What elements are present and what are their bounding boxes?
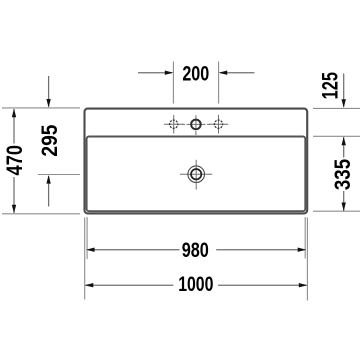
- drain outlet: [180, 160, 212, 190]
- washbasin outer rim (top view): [85, 109, 308, 214]
- svg-text:980: 980: [182, 239, 209, 262]
- svg-text:125: 125: [317, 72, 342, 99]
- dimension 1000 (overall width, bottom): [85, 218, 308, 301]
- tap hole right (optional, dashed): [209, 115, 228, 134]
- dimension 125 (rear ledge depth, right): [313, 72, 360, 136]
- svg-text:200: 200: [182, 62, 209, 85]
- dimension 980 (inner width, bottom): [86, 217, 306, 262]
- tap hole left (optional, dashed): [164, 115, 183, 134]
- svg-text:470: 470: [2, 145, 27, 176]
- dimension 200 (tap hole spacing, top): [138, 62, 254, 104]
- washbasin inner bowl: [87, 137, 306, 212]
- dimension 295 (drain centre from rear, left): [37, 76, 80, 207]
- svg-text:335: 335: [330, 159, 355, 190]
- tap hole center: [182, 115, 210, 135]
- dimension 470 (overall depth, left): [2, 108, 80, 214]
- svg-text:1000: 1000: [178, 273, 213, 296]
- dimension 335 (bowl depth, right): [313, 137, 360, 212]
- svg-text:295: 295: [37, 125, 62, 157]
